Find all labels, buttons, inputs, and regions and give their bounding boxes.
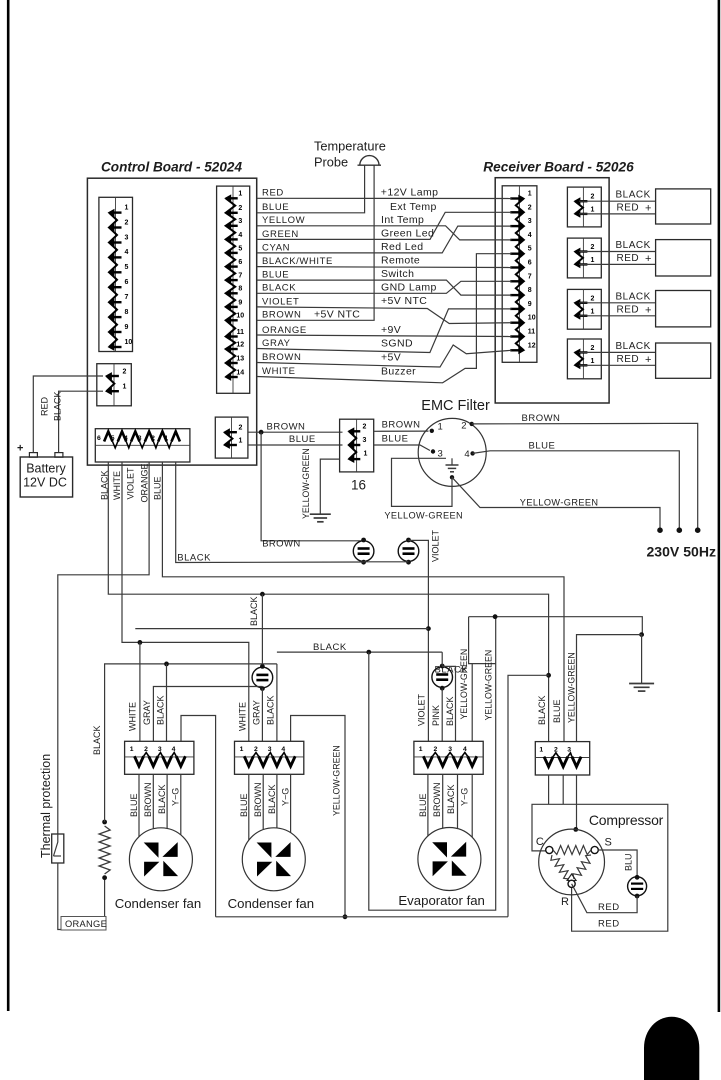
svg-text:BROWN: BROWN [262, 352, 301, 363]
svg-text:3: 3 [138, 435, 142, 442]
wire BLACK branch to evaporator loop [508, 675, 549, 917]
battery 12V DC [20, 457, 72, 497]
svg-text:BLU: BLU [624, 853, 634, 871]
svg-text:YELLOW-GREEN: YELLOW-GREEN [459, 649, 469, 720]
wire BLACK lamp 4 [579, 351, 656, 353]
svg-text:PINK: PINK [431, 705, 441, 726]
svg-text:8: 8 [125, 309, 129, 316]
svg-text:Condenser fan: Condenser fan [228, 896, 315, 911]
wire BLACK lamp 2 [579, 251, 656, 253]
connector F1 4-pin condenser fan 1 [125, 741, 194, 774]
connector 16 3-pin mains inlet [340, 419, 374, 472]
svg-text:BLACK: BLACK [262, 283, 296, 294]
svg-text:Battery: Battery [26, 462, 66, 476]
node mains L [695, 527, 701, 533]
wire BLACK to evaporator splice S3 [277, 651, 442, 653]
svg-text:RED: RED [617, 253, 640, 264]
lamp box 2 [656, 240, 711, 276]
svg-text:Evaporator fan: Evaporator fan [398, 893, 485, 908]
svg-text:1: 1 [591, 308, 595, 315]
svg-text:BLUE: BLUE [382, 433, 409, 444]
wire GRAY condenser1 pin2 to splice S4 [153, 687, 262, 742]
svg-text:1: 1 [130, 746, 134, 753]
wire YELLOW-GREEN condenser1 pin4 [181, 716, 216, 917]
svg-text:2: 2 [363, 424, 367, 431]
svg-text:EMC Filter: EMC Filter [421, 398, 490, 414]
wire row 4 GREEN Green Led to pin2 [257, 212, 512, 239]
wire VIOLET branch [135, 628, 428, 630]
svg-text:1: 1 [419, 746, 423, 753]
svg-text:BROWN: BROWN [382, 419, 421, 430]
node mains PE [657, 527, 663, 533]
svg-text:3: 3 [528, 218, 532, 225]
control board outline [87, 178, 256, 465]
svg-text:3: 3 [158, 746, 162, 753]
svg-text:1: 1 [164, 435, 168, 442]
svg-text:YELLOW-GREEN: YELLOW-GREEN [384, 510, 463, 520]
svg-text:1: 1 [238, 191, 242, 198]
svg-text:RED: RED [598, 902, 620, 913]
svg-text:WHITE: WHITE [112, 471, 122, 500]
capacitor run BLU [635, 875, 640, 880]
svg-text:9: 9 [238, 299, 242, 306]
wire YELLOW-GREEN EMC ground to mains PE [452, 477, 660, 529]
svg-text:YELLOW: YELLOW [262, 215, 305, 226]
svg-text:12: 12 [528, 342, 536, 349]
wire YELLOW-GREEN to compressor pin3 [577, 635, 642, 742]
wire BLUE J4 pin2 to compressor [162, 462, 564, 742]
wire BROWN J5 pin2 to 16-pin2 [248, 431, 343, 433]
wire PINK S3 to evaporator pin2 [441, 688, 443, 741]
svg-text:RED: RED [617, 354, 640, 365]
junction compressor shell ground [573, 827, 578, 832]
svg-text:2: 2 [591, 295, 595, 302]
svg-text:BROWN: BROWN [432, 783, 442, 818]
svg-text:4: 4 [172, 746, 176, 753]
svg-text:ORANGE: ORANGE [262, 325, 307, 336]
svg-text:BLACK: BLACK [616, 341, 651, 352]
svg-text:Control Board - 52024: Control Board - 52024 [101, 160, 243, 175]
svg-text:CYAN: CYAN [262, 242, 290, 253]
condenser fan 2 motor [242, 828, 305, 891]
svg-text:BLACK: BLACK [177, 553, 211, 564]
wire RED battery positive [33, 376, 103, 452]
connector J3 2-pin battery input [97, 364, 132, 406]
svg-text:RED: RED [598, 919, 620, 930]
svg-text:BROWN: BROWN [262, 538, 300, 549]
wire VIOLET splice S2 to evaporator pin1 [409, 540, 429, 741]
svg-text:+: + [645, 304, 651, 316]
ground symbol G1 [319, 513, 321, 516]
svg-text:YELLOW-GREEN: YELLOW-GREEN [332, 745, 342, 816]
svg-text:BLUE: BLUE [529, 440, 556, 451]
wire YELLOW-GREEN 16-pin1 to ground [320, 459, 339, 514]
lamp box 1 [656, 189, 711, 224]
wire BLACK condenser2 pin3 riser [276, 664, 278, 741]
svg-text:BLUE: BLUE [262, 270, 289, 281]
svg-text:1: 1 [591, 206, 595, 213]
svg-text:GREEN: GREEN [262, 229, 299, 240]
wire BLACK lamp 1 [579, 200, 656, 202]
svg-text:12V DC: 12V DC [23, 476, 67, 490]
svg-text:BLUE: BLUE [289, 434, 316, 445]
svg-text:8: 8 [528, 287, 532, 294]
svg-text:Buzzer: Buzzer [381, 366, 416, 378]
svg-text:Condenser fan: Condenser fan [115, 896, 202, 911]
svg-text:R: R [561, 896, 569, 908]
svg-text:Y−G: Y−G [171, 788, 181, 806]
svg-text:BLACK: BLACK [313, 642, 347, 653]
wire BLACK M1 pin1 to compressor C [548, 775, 550, 804]
svg-text:BLUE: BLUE [239, 793, 249, 817]
svg-text:3: 3 [363, 437, 367, 444]
wire YELLOW-GREEN collector [216, 916, 508, 918]
svg-text:2: 2 [238, 205, 242, 212]
connector L1 2-pin lamp output 1 [567, 187, 601, 227]
wire RED lamp 3 [579, 315, 656, 317]
svg-text:RED: RED [262, 188, 284, 199]
splice S4 [252, 667, 273, 688]
svg-text:RED: RED [617, 202, 640, 213]
svg-text:GRAY: GRAY [262, 338, 291, 349]
svg-text:3: 3 [567, 747, 571, 754]
svg-text:BLUE: BLUE [153, 476, 163, 500]
junction yg ground [639, 632, 644, 637]
svg-text:YELLOW-GREEN: YELLOW-GREEN [520, 498, 599, 508]
svg-text:Y−G: Y−G [460, 788, 470, 806]
svg-text:YELLOW-GREEN: YELLOW-GREEN [566, 652, 576, 723]
svg-text:ORANGE: ORANGE [139, 463, 149, 502]
svg-text:Receiver Board - 52026: Receiver Board - 52026 [483, 160, 634, 175]
svg-text:5: 5 [125, 264, 129, 271]
svg-text:YELLOW-GREEN: YELLOW-GREEN [301, 448, 311, 519]
svg-text:BLACK: BLACK [157, 784, 167, 814]
svg-text:2: 2 [528, 204, 532, 211]
wire BLUE EMC pin4 to mains N [473, 451, 680, 529]
svg-text:BLACK: BLACK [445, 696, 455, 726]
svg-text:Probe: Probe [314, 155, 348, 170]
wire row 3 YELLOW Int Temp to pin4 [257, 226, 512, 240]
svg-text:Remote: Remote [381, 255, 420, 267]
wire BROWN J5 to splice S1 [261, 432, 364, 541]
svg-text:5: 5 [111, 435, 115, 442]
svg-text:1: 1 [591, 257, 595, 264]
wire row 1 RED +12V Lamp to pin1 [257, 197, 512, 199]
svg-text:+: + [17, 443, 23, 455]
svg-text:4: 4 [528, 232, 532, 239]
label ORANGE boxed [61, 917, 106, 931]
svg-text:2: 2 [151, 435, 155, 442]
wire YELLOW-GREEN M1 pin3 to shell [576, 775, 578, 829]
svg-text:BLACK: BLACK [267, 784, 277, 814]
svg-text:3: 3 [268, 746, 272, 753]
svg-text:1: 1 [239, 438, 243, 445]
svg-text:Compressor: Compressor [589, 812, 664, 828]
junction yg evap [493, 614, 498, 619]
wire row 6 BLACK/WHITE Remote to pin6 [257, 266, 512, 269]
svg-text:ORANGE: ORANGE [65, 919, 107, 929]
svg-text:9: 9 [528, 301, 532, 308]
connector F2 4-pin condenser fan 2 [235, 741, 304, 774]
svg-text:7: 7 [238, 273, 242, 280]
wires F2 to condenser fan 2 [248, 774, 250, 840]
svg-text:10: 10 [528, 315, 536, 322]
wire BROWN EMC pin2 to mains L [472, 423, 698, 529]
svg-text:4: 4 [238, 232, 242, 239]
svg-text:8: 8 [238, 286, 242, 293]
svg-text:4: 4 [125, 249, 129, 256]
svg-text:2: 2 [239, 425, 243, 432]
svg-text:1: 1 [125, 204, 129, 211]
connector L3 2-pin lamp output 3 [567, 289, 601, 329]
wire YELLOW-GREEN condenser2 pin4 [291, 716, 345, 917]
wire row 8 BLACK GND Lamp to pin7 [257, 281, 512, 293]
svg-text:+12V Lamp: +12V Lamp [381, 186, 439, 198]
junction black-gray tap [260, 592, 265, 597]
splice S1 [353, 541, 374, 562]
svg-text:Red Led: Red Led [381, 241, 424, 253]
svg-text:10: 10 [125, 339, 133, 346]
svg-text:BLACK: BLACK [92, 725, 102, 755]
resistor R1 [99, 826, 110, 874]
svg-text:BLACK: BLACK [537, 695, 547, 725]
svg-text:11: 11 [528, 329, 536, 336]
wire row 7 BLUE Switch to pin8 [257, 280, 512, 295]
svg-text:7: 7 [528, 273, 532, 280]
svg-text:VIOLET: VIOLET [431, 529, 441, 562]
svg-text:BROWN: BROWN [262, 310, 301, 321]
svg-text:BLACK: BLACK [616, 240, 651, 251]
svg-text:BLACK: BLACK [156, 695, 166, 725]
wire row 2 BLUE Ext Temp to probe [257, 166, 365, 213]
junction black condenser1 pin3 [164, 662, 169, 667]
svg-text:5: 5 [528, 246, 532, 253]
svg-text:BLACK: BLACK [616, 190, 651, 201]
svg-text:4: 4 [124, 435, 128, 442]
connector L4 2-pin lamp output 4 [567, 339, 601, 379]
svg-text:1: 1 [364, 451, 368, 458]
page corner mark [644, 1017, 699, 1080]
svg-text:4: 4 [463, 746, 467, 753]
connector J4 6-pin on control board [95, 429, 190, 462]
svg-text:VIOLET: VIOLET [417, 693, 427, 726]
lamp box 4 [656, 343, 711, 378]
wire RED lamp 1 [579, 213, 656, 215]
svg-text:14: 14 [236, 369, 244, 376]
svg-text:+: + [645, 202, 651, 214]
svg-text:6: 6 [528, 260, 532, 267]
connector J5 2-pin mains on control board [215, 417, 248, 458]
temperature probe NTC sensor [358, 156, 382, 166]
wire BLACK to splice S4 [261, 594, 263, 667]
compressor motor windings C S R [539, 829, 605, 895]
wire YELLOW-GREEN EMC ground loop [392, 458, 453, 506]
svg-text:16: 16 [351, 478, 366, 493]
splice S3 [432, 667, 453, 688]
junction black compressor tap [546, 673, 551, 678]
svg-text:230V 50Hz: 230V 50Hz [647, 545, 717, 560]
wire RED lamp 4 [579, 364, 656, 366]
svg-text:BLUE: BLUE [418, 793, 428, 817]
compressor enclosure [532, 804, 668, 931]
svg-text:GND Lamp: GND Lamp [381, 281, 437, 293]
svg-text:2: 2 [123, 369, 127, 376]
connector J2 14-pin on control board [217, 186, 250, 393]
svg-text:BLACK: BLACK [249, 596, 259, 626]
junction black evap-loop [366, 650, 371, 655]
svg-text:1: 1 [438, 422, 443, 433]
svg-text:6: 6 [125, 279, 129, 286]
lamp box 3 [656, 291, 711, 327]
svg-text:1: 1 [123, 384, 127, 391]
svg-text:BLACK: BLACK [265, 695, 275, 725]
svg-text:+5V NTC: +5V NTC [314, 308, 360, 320]
evaporator fan motor [418, 828, 481, 891]
svg-text:GRAY: GRAY [142, 700, 152, 725]
svg-text:4: 4 [281, 746, 285, 753]
svg-text:S: S [605, 837, 612, 849]
svg-text:1: 1 [591, 358, 595, 365]
svg-text:2: 2 [591, 345, 595, 352]
svg-text:YELLOW-GREEN: YELLOW-GREEN [483, 650, 493, 721]
svg-text:GRAY: GRAY [252, 700, 262, 725]
svg-text:2: 2 [254, 746, 258, 753]
svg-text:3: 3 [238, 218, 242, 225]
wires F3 to evaporator fan [427, 774, 429, 836]
wire YELLOW-GREEN earth bus [469, 617, 643, 635]
svg-text:BLUE: BLUE [129, 793, 139, 817]
svg-text:Green Led: Green Led [381, 227, 434, 239]
svg-text:1: 1 [528, 191, 532, 198]
svg-text:+: + [645, 253, 651, 265]
wire BLACK battery negative [59, 391, 103, 452]
svg-text:SGND: SGND [381, 338, 413, 350]
wire row 12 GRAY SGND to pin9 [257, 309, 512, 353]
svg-text:C: C [536, 836, 544, 848]
splice S2 [398, 541, 419, 562]
svg-text:BLACK: BLACK [53, 391, 63, 421]
condenser fan 1 motor [129, 828, 192, 891]
svg-text:7: 7 [125, 294, 129, 301]
wire row 9 VIOLET +5V NTC to pin10 [257, 307, 512, 324]
svg-text:+: + [645, 354, 651, 366]
connector J1 10-pin on control board [99, 197, 133, 351]
svg-text:BLUE: BLUE [262, 202, 289, 213]
wire RED lamp 2 [579, 263, 656, 265]
wire BLACK lamp 3 [579, 302, 656, 304]
svg-text:+5V NTC: +5V NTC [381, 295, 427, 307]
wire BLACK J4 pin1 to splice S1 [176, 462, 364, 563]
svg-text:4: 4 [464, 449, 469, 460]
svg-text:1: 1 [539, 747, 543, 754]
svg-text:6: 6 [238, 259, 242, 266]
wire BLACK S3 to evaporator pin3 [442, 666, 455, 741]
wire RED R to capacitor [572, 884, 638, 913]
wire BLUE J5 pin1 to 16-pin3 [248, 444, 343, 446]
wire BLACK evap loop [369, 617, 496, 911]
svg-text:VIOLET: VIOLET [262, 296, 299, 307]
connector M1 3-pin compressor [535, 742, 589, 775]
svg-text:3: 3 [448, 746, 452, 753]
wire GRAY splice S4 to condenser2 pin2 [261, 688, 263, 741]
wire YELLOW-GREEN evap pin4 feed [469, 617, 496, 664]
svg-text:2: 2 [125, 219, 129, 226]
svg-text:Temperature: Temperature [314, 139, 386, 154]
node resistor top [102, 820, 107, 825]
svg-text:RED: RED [617, 304, 640, 315]
svg-text:Switch: Switch [381, 268, 414, 280]
wire into splice S3 [441, 652, 443, 666]
svg-text:3: 3 [125, 234, 129, 241]
svg-text:WHITE: WHITE [237, 702, 247, 731]
svg-text:2: 2 [434, 746, 438, 753]
wires F1 to condenser fan 1 [138, 774, 140, 836]
EMC filter [418, 418, 486, 486]
wire thermal to resistor [58, 863, 105, 930]
svg-text:9: 9 [125, 324, 129, 331]
wire BLACK J4 pin6 run [108, 462, 548, 742]
wire WHITE to condenser1 pin1 [139, 642, 141, 741]
svg-text:11: 11 [237, 329, 245, 336]
node resistor bottom [102, 875, 107, 880]
junction violet-branch [426, 626, 431, 631]
svg-text:BROWN: BROWN [267, 422, 306, 433]
wire ORANGE J4 pin3 to thermal protection [58, 462, 149, 834]
svg-text:Thermal protection: Thermal protection [39, 754, 53, 858]
svg-text:BLACK: BLACK [616, 291, 651, 302]
junction brown tap [259, 430, 264, 435]
wire BLACK resistor net [105, 664, 277, 822]
connector L2 2-pin lamp output 2 [567, 238, 601, 278]
svg-text:BROWN: BROWN [253, 783, 263, 818]
svg-text:RED: RED [40, 396, 50, 416]
wire row 10 BROWN +5V NTC to probe [257, 166, 374, 321]
svg-text:12: 12 [236, 341, 244, 348]
receiver board outline [495, 178, 609, 403]
wire S to capacitor [598, 850, 637, 876]
svg-text:13: 13 [236, 355, 244, 362]
wire BROWN 16 to EMC pin1 [374, 430, 429, 432]
svg-text:+9V: +9V [381, 324, 401, 336]
wire BLUE M1 pin2 into compressor [562, 775, 564, 804]
wire BLUE 16 to EMC pin3 [374, 445, 430, 451]
wire link S1-S2 bottoms [364, 561, 409, 563]
wire BLACK to condenser1 pin3 [166, 664, 168, 741]
node mains N [677, 527, 683, 533]
svg-text:WHITE: WHITE [128, 702, 138, 731]
thermal protection switch [52, 834, 64, 863]
svg-text:2: 2 [144, 746, 148, 753]
svg-text:6: 6 [97, 435, 101, 442]
svg-text:1: 1 [240, 746, 244, 753]
junction yg collector [343, 914, 348, 919]
svg-text:2: 2 [461, 421, 466, 432]
svg-text:2: 2 [591, 194, 595, 201]
svg-text:BLUE: BLUE [552, 699, 562, 723]
svg-text:Ext Temp: Ext Temp [390, 201, 437, 213]
svg-text:WHITE: WHITE [262, 366, 296, 377]
svg-text:5: 5 [238, 245, 242, 252]
wire row 14 WHITE Buzzer to pin5 [257, 254, 512, 383]
connector F3 4-pin evaporator fan [414, 741, 483, 774]
svg-text:Y−G: Y−G [280, 788, 290, 806]
ground symbol G2 [641, 635, 643, 684]
svg-text:Int Temp: Int Temp [381, 214, 424, 226]
connector K1 12-pin on receiver board [502, 186, 537, 362]
svg-text:2: 2 [554, 747, 558, 754]
svg-text:BROWN: BROWN [522, 413, 561, 424]
svg-text:+5V: +5V [381, 352, 401, 364]
